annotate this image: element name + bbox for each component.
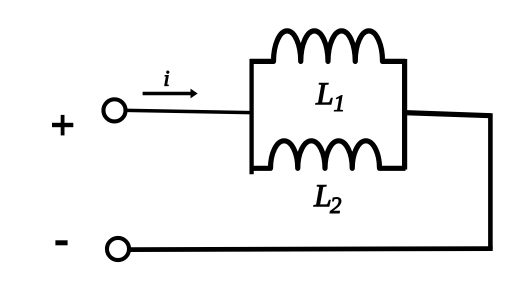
node B: right junction bar — [402, 59, 407, 170]
wire: bottom return to - terminal — [130, 249, 493, 250]
inductor L2 (bottom coil with lead stubs) — [250, 141, 406, 169]
svg-text:2: 2 — [330, 193, 342, 218]
svg-text:L: L — [313, 177, 332, 213]
label + (positive polarity mark) — [52, 115, 73, 135]
label L2 — [313, 177, 342, 218]
svg-text:i: i — [163, 66, 169, 91]
label L1 — [315, 75, 345, 116]
wire: right vertical drop — [488, 113, 493, 249]
current arrow i — [143, 89, 198, 99]
svg-text:1: 1 — [334, 91, 346, 116]
wire: + terminal to node A — [126, 110, 251, 112]
terminal T- (negative terminal circle) — [107, 238, 129, 260]
wire: node B to top-right corner — [404, 113, 491, 116]
label - (negative polarity mark) — [55, 240, 67, 245]
inductor L1 (top coil with lead stubs) — [250, 31, 406, 62]
svg-text:L: L — [315, 75, 334, 111]
terminal T+ (positive terminal circle) — [103, 99, 125, 121]
node A: left junction bar — [249, 59, 253, 174]
